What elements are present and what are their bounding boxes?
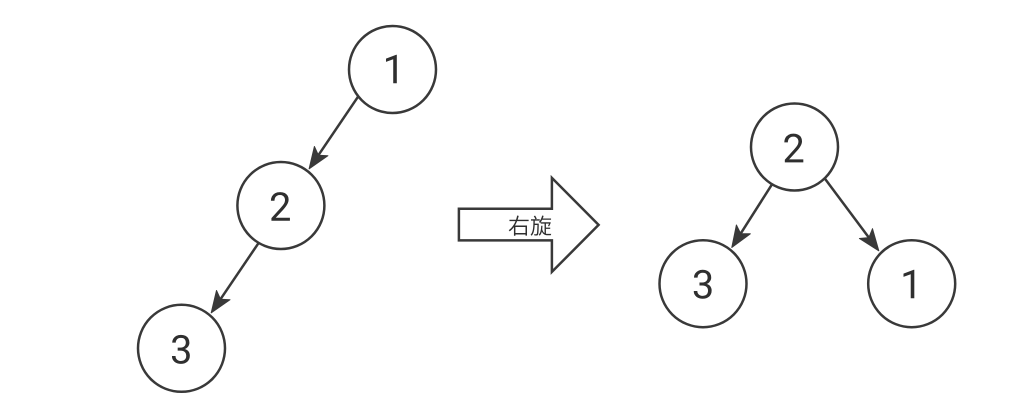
label char xuan (rotate) <box>531 216 552 236</box>
node L1 circle (value 1) <box>349 26 436 113</box>
node L3 circle (value 3) <box>138 305 225 392</box>
wire edge right 2->3 <box>732 184 772 247</box>
node R1 circle (value 1) <box>868 240 955 327</box>
node L2 circle (value 2) <box>237 162 324 249</box>
wire edge left 1->2 <box>309 96 358 169</box>
node R2 circle (value 2) <box>751 104 838 191</box>
label char you (right) <box>509 216 529 236</box>
block arrow (right rotation) <box>459 178 599 272</box>
wire edge left 2->3 <box>211 243 259 313</box>
node R3 circle (value 3) <box>660 240 747 327</box>
wire edge right 2->1 <box>825 178 879 251</box>
